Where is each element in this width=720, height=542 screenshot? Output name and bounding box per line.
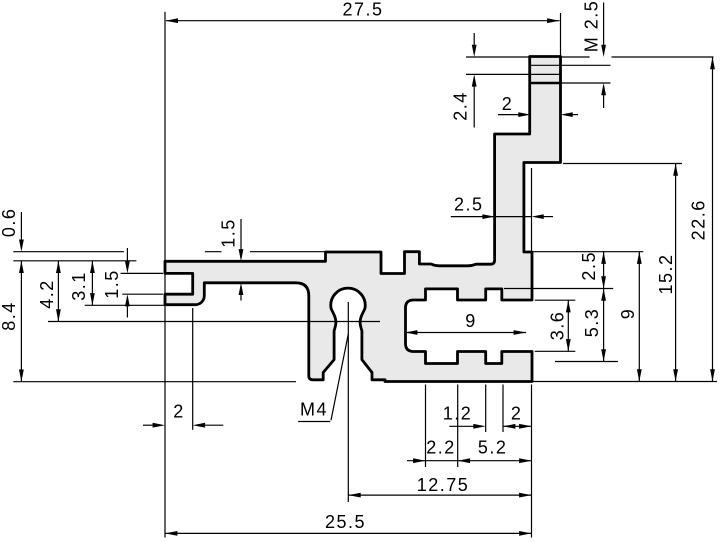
svg-text:3.1: 3.1 [69, 271, 89, 301]
arm top extension right segment 2 [612, 56, 714, 58]
arrow 2.4 down [472, 45, 477, 57]
notch extension x=485.7 [485, 385, 487, 433]
dim 5.3 line [603, 289, 605, 362]
hook slot bottom reference [122, 293, 163, 295]
dim 3.6 line [567, 300, 569, 351]
dim M2.5 line lower [603, 95, 605, 108]
right edge extension x=531.5 lower [531, 385, 533, 538]
T-slot notch top reference y=288.5 [504, 288, 613, 290]
dim 3.1 line [91, 261, 93, 306]
extension line arm right edge x=560.5 [560, 13, 562, 57]
notch extension x=503 [502, 385, 504, 433]
svg-text:2.5: 2.5 [579, 251, 599, 281]
arrow 3.1 down [90, 293, 95, 305]
arrow 2.5 right down [601, 276, 606, 288]
tooth extension x=457.7 [457, 385, 459, 468]
arrow 2 bottom right [519, 424, 531, 429]
arrow 3.6 down [566, 339, 571, 351]
svg-text:1.5: 1.5 [102, 269, 122, 299]
svg-text:12.75: 12.75 [417, 475, 470, 495]
arrow M2.5 down [601, 45, 606, 57]
svg-text:25.5: 25.5 [325, 512, 366, 532]
svg-text:5.2: 5.2 [478, 438, 508, 458]
dim 2.4 line lower [473, 87, 475, 128]
svg-text:2: 2 [511, 404, 523, 424]
dim 1.5 stack line lower [126, 306, 128, 317]
dim 2 arm line right [573, 114, 579, 116]
dim 2 bottom-left line left [143, 424, 154, 426]
dim 22.6 line [712, 57, 714, 382]
svg-text:8.4: 8.4 [0, 301, 19, 331]
svg-text:M 2.5: M 2.5 [582, 0, 602, 52]
5.3 bottom reference [555, 361, 618, 363]
dim 2 arm line left [498, 114, 519, 116]
arrow 22.6 down [710, 369, 715, 381]
arrow 5.3 down [601, 349, 606, 361]
svg-text:2: 2 [502, 94, 514, 114]
M4 underline [298, 421, 330, 423]
arrow 2 bottom-left right [153, 423, 165, 428]
svg-text:4.2: 4.2 [37, 279, 57, 309]
arrow 27.5 left [166, 18, 178, 23]
svg-text:9: 9 [465, 311, 477, 331]
arrow 2 arm right [518, 112, 530, 117]
arrow 22.6 up [710, 57, 715, 69]
M4 horizontal centerline / 4.2 reference [48, 321, 380, 323]
svg-text:2.2: 2.2 [426, 438, 456, 458]
tooth extension x=425.5 [425, 385, 427, 468]
arrow 8.4 down [19, 370, 24, 382]
arrow 25.5 right [519, 531, 531, 536]
dim 15.2 line [675, 164, 677, 382]
hook finger bottom reference [85, 304, 164, 306]
M2.5 thread crest line 1 [531, 64, 611, 66]
M2.5 thread crest line 2 / 2.4 lower reference [466, 73, 561, 75]
dim 12.75 line [348, 494, 531, 496]
arrow 1.5 step up [239, 283, 244, 295]
thread bottom extension right [561, 82, 611, 84]
arrow 1.5 stack up [125, 294, 130, 306]
arrow 12.75 left [348, 493, 360, 498]
arrow 5.2 right [519, 458, 531, 463]
hook wall extension down x=192.7 [192, 308, 194, 430]
svg-text:2.4: 2.4 [451, 91, 471, 121]
svg-text:2: 2 [173, 402, 185, 422]
svg-text:M4: M4 [300, 400, 328, 420]
M4 vertical centerline / 12.75 extension [347, 302, 349, 502]
15.2 top reference line [563, 163, 682, 165]
arrow M2.5 up [601, 83, 606, 95]
arrow 2.5 mid left [532, 214, 544, 219]
arrow 2.2 left [458, 458, 470, 463]
arrow 1.5 stack down [125, 261, 130, 273]
svg-text:1.2: 1.2 [443, 404, 473, 424]
svg-text:27.5: 27.5 [342, 0, 383, 19]
svg-text:9: 9 [618, 308, 638, 320]
svg-text:5.3: 5.3 [582, 308, 602, 338]
svg-text:22.6: 22.6 [688, 199, 708, 240]
arrow 4.2 down [56, 309, 61, 321]
3.6 top reference [535, 299, 576, 301]
M 2.5 underline [603, 3, 605, 51]
arrow 2 arm left [561, 112, 573, 117]
arrow 2 bottom left [503, 424, 515, 429]
arrow 8.4 up [19, 261, 24, 273]
top surface reference left [13, 260, 136, 262]
9 right top reference [533, 251, 644, 253]
dim 2.5 mid tail right [544, 216, 554, 218]
svg-text:15.2: 15.2 [656, 253, 676, 294]
arrow 25.5 left [165, 531, 177, 536]
dim 2.5 right line [603, 252, 605, 289]
dim 1.5 step line lower [240, 295, 242, 301]
profile cross-section body [165, 57, 561, 382]
arrow 2.2 right [413, 458, 425, 463]
dim 0.6 line [20, 212, 22, 240]
arrow 1.2 right [473, 424, 485, 429]
arrow 5.3 up [601, 289, 606, 301]
dim M2.5 line upper [603, 45, 605, 51]
svg-text:2.5: 2.5 [454, 194, 484, 214]
arrow 2.4 up [472, 74, 477, 86]
arrow 9 right up [637, 252, 642, 264]
arrow 3.6 up [566, 300, 571, 312]
0.6 step level extension left segment 3 [250, 251, 326, 253]
svg-text:0.6: 0.6 [0, 208, 19, 238]
arm top extension left [466, 56, 531, 58]
arm top extension right segment 1 [561, 56, 590, 58]
hook slot top reference [121, 272, 164, 274]
arrow 27.5 right [547, 18, 559, 23]
dim 27.5 line [166, 20, 560, 22]
arrow 15.2 down [673, 369, 678, 381]
bottom edge extension right [533, 381, 717, 383]
dim 4.2 line [57, 261, 59, 322]
arrow 9 cavity right [514, 330, 526, 335]
arrow 12.75 right [519, 493, 531, 498]
3.6 bottom reference [535, 350, 576, 352]
dim 1.2 line [449, 425, 474, 427]
arrow 2 bottom-left left [193, 423, 205, 428]
dim 1.5 stack line upper [126, 248, 128, 262]
M4 leader line [331, 334, 348, 420]
dim 2.5 mid line [451, 216, 532, 218]
arrow 0.6 down [19, 240, 24, 252]
dim 9 right line [638, 252, 640, 382]
dim 2 bottom-left line right [205, 424, 224, 426]
bottom edge extension left [13, 381, 296, 383]
arrow 2.5 right up [601, 252, 606, 264]
arrow 9 cavity left [405, 330, 417, 335]
arrow 15.2 up [673, 164, 678, 176]
arrow 2.5 mid right [482, 214, 494, 219]
dim 25.5 line [165, 532, 532, 534]
extension x=531.5 upper (2.5 mid reference) [531, 168, 533, 251]
dim 9 cavity line [405, 332, 526, 334]
arrow 3.1 up [90, 261, 95, 273]
extension line left edge x=165 [164, 12, 166, 538]
dim 2.2 / 5.2 line [407, 460, 532, 462]
arrow 9 right down [637, 369, 642, 381]
svg-text:1.5: 1.5 [219, 218, 239, 248]
arrow 4.2 up [56, 261, 61, 273]
svg-text:3.6: 3.6 [547, 311, 567, 341]
0.6 step level extension left segment 1 [13, 251, 124, 253]
dim 2 bottom line [503, 425, 532, 427]
0.6 step level extension left segment 2 [205, 251, 222, 253]
dim 2.4 line upper [473, 33, 475, 45]
dim 8.4 line [20, 261, 22, 382]
M2.5 thread bottom line (thick, inside arm) [531, 82, 561, 85]
dim 1.5 step line upper [240, 219, 242, 250]
arrow 1.5 step down [239, 249, 244, 261]
